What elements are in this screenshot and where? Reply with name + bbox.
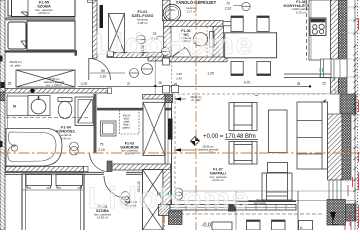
dashed cabinets gardrob [120,109,140,134]
level marker [191,137,200,146]
svg-text:LidoHome: LidoHome [95,28,254,61]
toilet bathroom [58,98,72,119]
SE corner checker [327,200,346,226]
watermark [88,28,254,215]
shower cabinet in gardrob [101,121,117,136]
gardrob door dim [98,143,105,153]
washbasin [28,96,50,116]
bathroom right wall [94,94,97,153]
svg-text:+0,00 = 170,48 Bfm: +0,00 = 170,48 Bfm [203,134,256,140]
WC left wall [164,26,172,57]
svg-text:8,15 m²: 8,15 m² [296,10,306,14]
kitchen label F1-08 [284,0,319,14]
hatch strip next to X wall [163,170,171,205]
shower corner [75,97,94,126]
taroló bottom wall hatched [164,21,224,27]
tag circle nappali sw [175,188,183,199]
orange section line vertical [164,0,196,230]
coffee table [269,110,288,153]
kitchen/right wall top: inner line [330,0,332,94]
window in right wall [321,59,348,78]
hall door arc [89,59,111,81]
TV on wall [168,119,173,140]
dashed line x175 [174,96,176,200]
WC door tag [162,48,170,56]
svg-text:25: 25 [297,82,301,86]
opening jambs corridor [163,58,179,93]
terrace furniture [247,220,286,230]
F1-06 room label [94,205,111,219]
bathroom/gardrob bottom wall hatched [6,167,84,172]
vertical line terrace [297,191,299,230]
szelfogo bottom wall hatched [107,53,168,58]
svg-text:2,10: 2,10 [98,148,105,152]
gerenda label [44,77,65,87]
WC door leaf and arc [173,48,186,57]
thin line terrace dimension [176,200,356,202]
svg-text:K: K [300,225,303,230]
svg-text:25: 25 [332,78,336,82]
red dimension texts right edge [345,18,359,230]
door jamb szelfogo [108,52,114,57]
svg-text:gallérz.: gallérz. [123,127,131,130]
acel oszlop label [254,199,267,205]
svg-text:90: 90 [101,69,105,73]
svg-text:4,08 m²: 4,08 m² [137,21,147,25]
F1-06 door arc [104,176,126,198]
szelfogo wardrobe X-box [109,14,125,53]
right dimension column [354,0,356,230]
arrow SE pillar [330,212,336,221]
corner pillar checker [340,94,356,114]
gerenda label nappali [198,145,219,155]
svg-text:25: 25 [322,82,326,86]
svg-text:LidoHome: LidoHome [88,182,251,215]
right wall window lower [329,180,341,204]
svg-text:2,10: 2,10 [100,75,107,79]
bathroom label F1-04 [56,126,75,141]
armchair 1 [229,103,257,131]
terrace glass wall [170,205,296,211]
pillar label top-left [9,60,22,68]
tag circles F1-06 [121,192,129,205]
svg-text:4,70: 4,70 [244,81,251,85]
tag circles hall [130,64,153,78]
bathroom top wall hatched [5,89,111,94]
chairs [231,16,271,76]
hall wardrobe X-box [16,70,75,87]
room F1-05 szoba: bed 1 top [8,0,75,17]
left exterior wall hatched [0,0,5,92]
dim 70/2,10 kitchen door [225,2,232,11]
right exterior wall middle [327,114,329,180]
svg-text:14,83 m²: 14,83 m² [97,216,108,220]
sofa armchair south [262,173,292,200]
room label F1-05 SZOBA [35,0,53,15]
WC bottom wall [164,57,228,62]
dark hatch block [159,205,171,216]
pillar label bottom [124,200,137,208]
dim 75/210 for WC door [151,32,158,41]
svg-text:70: 70 [226,2,230,6]
svg-text:vb. pillér: vb. pillér [10,64,20,68]
dashed line below terrace wall [180,213,323,215]
gardrob door arc [90,153,109,172]
svg-text:1,17 m²: 1,17 m² [187,10,197,14]
orange section line horizontal [0,152,360,154]
inner face line left wall [6,94,8,166]
svg-text:puffer: puffer [168,8,175,12]
svg-text:M: M [13,105,16,109]
rotated dim 90/2,10 szelfogo bottom door [141,45,145,56]
toilet in WC [193,32,214,48]
svg-text:1,05: 1,05 [176,72,182,76]
svg-text:2,40: 2,40 [176,76,182,80]
svg-text:1,05: 1,05 [207,72,213,76]
right exterior wall hatched top [331,0,339,94]
washing machine [7,96,28,116]
sofa along right wall [297,102,328,169]
WC dashed line [206,27,208,57]
armchair 2 [229,142,257,165]
bathtub [6,129,62,167]
svg-text:acél oszlop: acél oszlop [254,202,267,205]
WC right wall [213,26,224,61]
svg-text:5,09 m²: 5,09 m² [125,152,135,156]
svg-text:25: 25 [8,82,12,86]
svg-text:2,10: 2,10 [225,6,232,10]
dashed vertical line kitchen [306,0,308,60]
door rects below wall [22,174,84,232]
central X wall lower [143,170,164,231]
teal micro marks [158,96,259,197]
svg-text:25: 25 [158,81,162,85]
checker block in left wall [0,92,5,101]
door tag circle szelfogo [137,35,146,44]
szoba/szelfogo vertical wall [93,0,98,58]
svg-text:4,30 m²: 4,30 m² [61,136,71,140]
black marker on left wall [1,82,5,88]
puffer tank circle [163,4,180,21]
gardrob label [120,142,139,156]
entry door leaf [100,5,104,28]
dining table [225,33,277,58]
wall thin lines continuing to kitchen [223,21,237,23]
horizontal extension lines to dim column [344,7,360,221]
pillar label nappali top [190,95,201,102]
central X wall upper [143,102,165,155]
door tag circle kitchen [242,2,250,10]
room F1-05 szoba: bed 2 [8,21,75,50]
room label F1-01 [132,10,154,25]
checker block [169,211,183,225]
svg-text:75: 75 [100,143,104,147]
bed divider line [6,18,75,20]
dashed beam line bathroom [6,117,90,119]
szoba bottom wall [5,50,77,52]
dim 90/2,10 hall door [100,69,107,79]
WC label [181,29,192,43]
gardrob top wall [97,108,171,111]
stove [310,18,326,36]
tag circles bathroom [70,142,79,155]
nappali label [210,168,227,182]
svg-text:a.s.: + 2,26 m: a.s.: + 2,26 m [46,83,62,87]
wall band above X-box [143,95,166,100]
kitchen counter low double line [284,73,331,75]
szelfogo right wall hatched [163,0,171,21]
kitchen counter [309,0,331,60]
nappali west wall double line [165,103,172,205]
svg-text:4,70: 4,70 [81,82,88,86]
long dimension line 4,70 [78,85,310,87]
pillar at corridor (checker) [165,95,173,103]
taroló-gepeszet room label [176,0,217,13]
svg-text:a.s.: + 2,26 m: a.s.: + 2,26 m [200,151,216,155]
F1-06 top wall [5,172,143,174]
svg-text:25: 25 [127,82,131,86]
svg-text:10,50 m²: 10,50 m² [38,11,50,15]
